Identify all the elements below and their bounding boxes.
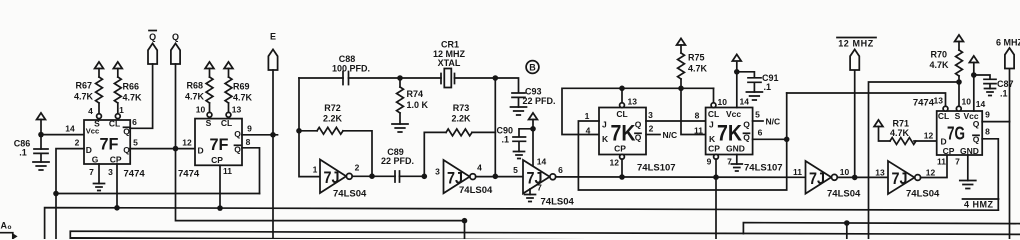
svg-text:C87: C87 [997, 79, 1014, 89]
svg-text:8: 8 [985, 127, 990, 137]
svg-text:7K: 7K [717, 121, 742, 146]
svg-text:74LS04: 74LS04 [333, 189, 367, 200]
svg-text:CP: CP [110, 154, 122, 164]
svg-text:74LS107: 74LS107 [744, 163, 783, 174]
wire pin14 Vcc [41, 134, 84, 136]
svg-text:1: 1 [313, 165, 318, 175]
svg-text:3: 3 [108, 167, 113, 177]
inverter U-7J#1 [320, 160, 346, 194]
svg-text:2: 2 [355, 163, 360, 173]
svg-text:R74: R74 [407, 89, 424, 99]
svg-text:4.7K: 4.7K [233, 93, 253, 103]
svg-text:J: J [602, 120, 607, 130]
svg-text:Q: Q [635, 120, 642, 130]
svg-text:74LS04: 74LS04 [541, 197, 575, 208]
wire Q flag down [175, 64, 177, 149]
resistor R72 feedback [296, 128, 302, 134]
svg-text:GND: GND [960, 146, 979, 156]
ground pin7 7K2 [736, 155, 738, 165]
svg-text:4: 4 [477, 163, 482, 173]
svg-text:7J: 7J [324, 168, 340, 187]
resistor R66 [113, 62, 122, 69]
svg-text:C88: C88 [339, 54, 356, 64]
svg-text:R68: R68 [186, 81, 203, 91]
wire pin11 CP down [219, 165, 221, 208]
svg-text:7474: 7474 [178, 169, 200, 180]
svg-text:CL: CL [221, 118, 232, 128]
svg-text:7F: 7F [100, 135, 119, 154]
svg-text:A: A [1, 221, 8, 231]
svg-text:D: D [941, 137, 947, 147]
svg-text:4.7K: 4.7K [688, 64, 708, 74]
wire Q3 to J8 [646, 120, 706, 122]
svg-text:4: 4 [586, 126, 591, 136]
svg-text:2.2K: 2.2K [451, 114, 471, 124]
wire R75 node down to K11 [681, 88, 706, 134]
node B [526, 61, 539, 74]
resistor R70 [955, 35, 964, 42]
svg-text:12: 12 [924, 131, 934, 141]
svg-text:Q: Q [973, 119, 980, 129]
wire bus line C [176, 149, 465, 239]
svg-text:5: 5 [133, 138, 138, 148]
svg-text:.1: .1 [764, 82, 772, 92]
svg-text:9: 9 [247, 124, 252, 134]
svg-text:7J: 7J [892, 169, 908, 188]
capacitor C90 [513, 129, 533, 152]
svg-text:o: o [8, 224, 12, 231]
svg-text:5: 5 [513, 165, 518, 175]
svg-text:12 MHZ: 12 MHZ [838, 39, 874, 49]
svg-text:74LS04: 74LS04 [827, 189, 861, 200]
svg-text:3: 3 [648, 110, 653, 120]
resistor R67 [95, 62, 104, 69]
inverter U-7J#5 [888, 161, 915, 194]
wire E down [272, 70, 274, 135]
wire Q6bar out [753, 138, 787, 140]
svg-text:Q: Q [149, 32, 156, 42]
svg-text:Vcc: Vcc [726, 109, 741, 119]
svg-text:10: 10 [196, 105, 206, 115]
svg-text:6: 6 [558, 165, 563, 175]
svg-text:K: K [602, 134, 609, 144]
svg-text:7: 7 [89, 167, 94, 177]
flip-flop U-7G box [937, 111, 983, 155]
svg-text:2.2K: 2.2K [323, 114, 343, 124]
wire 12MHz clock line to CP pins and inv4 [556, 176, 806, 178]
ground [33, 162, 49, 170]
wire Q8bar to 4MHZ bus [982, 139, 998, 210]
svg-text:Q: Q [172, 32, 179, 42]
svg-text:1: 1 [585, 111, 590, 121]
svg-text:14: 14 [976, 99, 986, 109]
crystal CR1 [441, 74, 455, 84]
svg-text:R69: R69 [233, 82, 250, 92]
wire osc loop left vertical [299, 78, 320, 177]
svg-text:74LS04: 74LS04 [459, 185, 493, 196]
svg-text:CP: CP [943, 146, 955, 156]
svg-text:10: 10 [840, 167, 850, 177]
svg-text:CR1: CR1 [441, 40, 459, 50]
svg-text:6 MHZ: 6 MHZ [996, 38, 1020, 48]
svg-text:74LS04: 74LS04 [906, 189, 940, 200]
flip-flop U-7K#2 box [706, 108, 753, 155]
node 12 MHZ flag [854, 70, 856, 177]
svg-text:100 PFD.: 100 PFD. [332, 64, 370, 74]
svg-text:22 PFD.: 22 PFD. [381, 156, 414, 166]
svg-text:12: 12 [182, 138, 192, 148]
wire J1 feedback [578, 93, 786, 190]
wire S10 node to bottom [869, 82, 960, 239]
svg-text:10: 10 [962, 97, 972, 107]
resistor R68 [205, 62, 214, 69]
svg-text:4.7K: 4.7K [185, 92, 205, 102]
svg-text:R71: R71 [893, 119, 910, 129]
resistor R74 [397, 75, 403, 81]
ground pin7 [98, 164, 100, 184]
svg-text:J: J [709, 120, 714, 130]
svg-text:7: 7 [727, 157, 732, 167]
capacitor C91 [737, 72, 761, 92]
wire inv4 out [837, 176, 888, 178]
svg-text:11: 11 [223, 166, 232, 176]
svg-text:13: 13 [232, 105, 242, 115]
wire inv1 out [352, 175, 395, 177]
wire bus line A [56, 193, 260, 195]
wire Q9 down to line D [1009, 122, 1011, 239]
svg-text:8: 8 [246, 137, 251, 147]
svg-text:4 HMZ: 4 HMZ [964, 200, 994, 210]
svg-text:Q: Q [743, 120, 750, 130]
resistor R71 [874, 120, 883, 127]
svg-text:Vcc: Vcc [86, 127, 99, 136]
svg-text:6: 6 [132, 117, 137, 127]
svg-text:7F: 7F [210, 135, 229, 154]
node junction [38, 132, 44, 138]
wire pin8 Qbar to bus A [242, 148, 260, 194]
svg-text:N/C: N/C [766, 117, 781, 127]
inverter U-7J#4 [806, 161, 832, 194]
wire Q6bar to 7G CL13 [787, 93, 946, 106]
svg-text:2: 2 [649, 124, 654, 134]
resistor R73 feedback [424, 132, 446, 176]
wire bottom edge band [71, 238, 640, 240]
svg-text:4.7K: 4.7K [929, 60, 949, 70]
svg-text:74LS107: 74LS107 [637, 163, 676, 174]
svg-text:R70: R70 [930, 50, 947, 60]
svg-text:R66: R66 [123, 82, 140, 92]
svg-text:C93: C93 [525, 87, 542, 97]
wire pin3 CP down to bus [116, 164, 118, 208]
svg-text:4.7K: 4.7K [123, 93, 143, 103]
svg-text:Q: Q [234, 129, 241, 139]
capacitor C93 [495, 78, 525, 107]
svg-text:7: 7 [955, 157, 960, 167]
svg-text:11: 11 [694, 126, 703, 136]
svg-text:5: 5 [755, 110, 760, 120]
wire CL13 drop [621, 88, 623, 102]
svg-text:12: 12 [926, 168, 936, 178]
capacitor C89 [395, 171, 400, 182]
+5V arrow inv3 Vcc [529, 113, 538, 120]
svg-text:9: 9 [707, 157, 712, 167]
wire CP9 [714, 154, 719, 159]
wire pin2 D down to bus [56, 149, 84, 239]
svg-text:D: D [198, 146, 204, 156]
wire to inv3 [476, 176, 523, 178]
svg-text:CL: CL [616, 109, 627, 119]
wire E node down to bottom [272, 135, 274, 239]
wire [40, 120, 42, 150]
svg-text:R73: R73 [453, 103, 470, 113]
svg-text:14: 14 [740, 97, 750, 107]
wire pin5 Q to pin12 D [130, 148, 195, 150]
svg-text:CP: CP [211, 155, 223, 165]
svg-text:S: S [206, 118, 212, 128]
svg-text:4.7K: 4.7K [890, 128, 910, 138]
svg-text:.1: .1 [19, 148, 27, 158]
svg-text:14: 14 [537, 157, 547, 167]
wire bus line B 4MHZ [45, 208, 999, 239]
svg-text:CL: CL [109, 119, 120, 129]
svg-text:10: 10 [718, 97, 728, 107]
resistor R69 [224, 62, 233, 69]
capacitor C87 [974, 75, 996, 89]
svg-text:4: 4 [88, 106, 93, 116]
svg-text:XTAL: XTAL [438, 58, 461, 68]
+5V arrow for C86/Vcc [37, 113, 46, 120]
flip-flop U-7F#2 box [195, 119, 242, 166]
svg-text:.1: .1 [501, 135, 509, 145]
svg-text:R67: R67 [75, 81, 92, 91]
ground pin7 7G [967, 155, 969, 181]
wire inv5 out to CP11 [921, 155, 947, 178]
svg-text:G: G [92, 154, 99, 164]
wire Q5 NC [753, 120, 763, 122]
svg-text:CP: CP [614, 144, 626, 154]
wire Q9 to 6MHZ [982, 121, 1009, 123]
svg-text:.1: .1 [1000, 89, 1008, 99]
wire xtal right leg [494, 78, 496, 176]
svg-text:7474: 7474 [124, 169, 146, 180]
svg-text:7K: 7K [611, 121, 636, 146]
svg-text:K: K [709, 134, 716, 144]
svg-text:7G: 7G [947, 124, 965, 144]
wire bus line D [70, 231, 1020, 239]
inverter U-7J#3 [523, 160, 550, 194]
svg-text:1: 1 [119, 105, 124, 115]
wire pin9 Q to E node [242, 134, 278, 136]
svg-text:4.7K: 4.7K [74, 92, 94, 102]
svg-text:CL: CL [938, 111, 949, 121]
svg-text:9: 9 [985, 110, 990, 120]
svg-text:Q: Q [123, 145, 130, 155]
+5V arrow Vcc 7K [732, 54, 741, 61]
svg-text:GND: GND [726, 144, 745, 154]
inverter U-7J#2 [444, 160, 470, 193]
svg-text:CP: CP [708, 144, 720, 154]
svg-text:6: 6 [758, 128, 763, 138]
svg-text:13: 13 [875, 168, 885, 178]
svg-text:22 PFD.: 22 PFD. [523, 96, 556, 106]
capacitor C86 [34, 149, 48, 162]
svg-text:13: 13 [628, 97, 638, 107]
svg-text:CL: CL [708, 109, 719, 119]
svg-text:S: S [955, 111, 961, 121]
capacitor C88 [299, 77, 343, 79]
flip-flop U-7F#1 box [84, 120, 130, 164]
svg-text:R72: R72 [324, 103, 341, 113]
svg-text:N/C: N/C [663, 130, 678, 140]
wire Q2bar NC [646, 134, 660, 136]
svg-text:3: 3 [435, 167, 440, 177]
svg-text:R75: R75 [688, 53, 705, 63]
svg-text:13: 13 [934, 96, 944, 106]
svg-text:7: 7 [537, 183, 542, 193]
wire clear line [562, 88, 714, 134]
wire CP12 [620, 154, 625, 159]
svg-text:14: 14 [65, 124, 75, 134]
svg-text:11: 11 [937, 157, 946, 167]
svg-text:12: 12 [610, 158, 620, 168]
flip-flop U-7K#1 box [599, 108, 646, 155]
wire pin6 to flag [130, 64, 153, 128]
svg-text:1.0 K: 1.0 K [407, 100, 429, 110]
svg-text:E: E [270, 32, 276, 42]
svg-text:11: 11 [793, 167, 802, 177]
svg-text:B: B [529, 63, 536, 73]
+5V arrow 7G Vcc [969, 56, 978, 63]
svg-text:8: 8 [695, 111, 700, 121]
resistor R75 [677, 38, 686, 45]
svg-text:7J: 7J [809, 169, 825, 188]
svg-text:2: 2 [75, 138, 80, 148]
svg-text:7474: 7474 [913, 98, 935, 109]
